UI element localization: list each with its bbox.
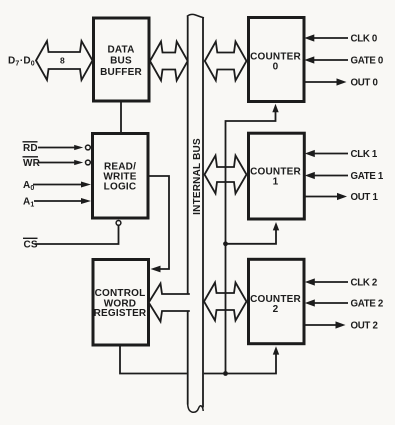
wire: GATE 2 input <box>314 302 348 304</box>
wire: RD input <box>38 147 78 149</box>
svg-text:0: 0 <box>273 61 279 72</box>
svg-text:CLK 0: CLK 0 <box>351 34 378 45</box>
arrowhead: GATE 2 <box>305 299 315 306</box>
svg-text:GATE 1: GATE 1 <box>351 171 384 182</box>
arrowhead: GATE 0 <box>304 56 314 63</box>
wire: CS input <box>35 225 119 244</box>
bus arrow: data bus buffer to internal bus <box>150 42 188 81</box>
bubble: WR active-low <box>86 160 91 165</box>
svg-text:INTERNAL BUS: INTERNAL BUS <box>192 138 203 215</box>
wire: CLK 0 input <box>313 37 348 39</box>
wire: OUT 0 output <box>304 81 338 83</box>
wire: OUT 2 output <box>304 324 337 326</box>
counter 1 block <box>249 133 305 219</box>
bubble: RD active-low <box>86 145 91 150</box>
bus arrow: internal bus to counter 2 <box>204 283 247 321</box>
arrowhead: OUT 1 <box>337 193 347 200</box>
wire: data bus buffer to read/write logic <box>120 100 122 134</box>
wire: OUT 1 output <box>304 196 338 198</box>
svg-text:GATE 2: GATE 2 <box>351 299 383 310</box>
svg-text:GATE 0: GATE 0 <box>351 56 383 67</box>
bus arrow: internal bus to control word register <box>149 284 190 322</box>
svg-text:REGISTER: REGISTER <box>94 308 147 319</box>
svg-text:BUFFER: BUFFER <box>100 67 142 78</box>
svg-text:CS: CS <box>24 240 38 251</box>
arrowhead: OUT 2 <box>336 321 346 328</box>
wire: control word register bottom to counters feed (left segment, behind bus) <box>120 345 187 374</box>
arrowhead: OUT 0 <box>337 78 347 85</box>
data bus buffer block <box>94 18 150 101</box>
svg-text:BUS: BUS <box>110 56 132 67</box>
bus arrow: D7-D0 to data bus buffer <box>36 41 93 80</box>
junction: bottom feed node <box>223 371 228 376</box>
wire: WR input <box>38 162 78 164</box>
bus arrow: internal bus to counter 0 <box>205 42 247 81</box>
overline: CS <box>23 237 38 239</box>
wire: counter 0 feed from internal-bus tap <box>226 110 276 374</box>
wire: read/write logic to control word register <box>148 176 169 269</box>
junction: counter 1 branch node <box>223 241 228 246</box>
svg-text:OUT 0: OUT 0 <box>351 78 378 89</box>
arrowhead: A0 <box>81 182 91 188</box>
svg-text:WR: WR <box>23 158 41 169</box>
arrowhead: into control word register <box>151 266 161 273</box>
svg-text:DATA: DATA <box>107 45 134 56</box>
internal bus <box>187 14 204 412</box>
overline: RD <box>23 141 38 143</box>
wire: counters feed bottom (right segment) <box>204 353 276 374</box>
arrowhead: CLK 0 <box>304 34 314 41</box>
svg-text:8: 8 <box>60 55 65 65</box>
bubble: CS active-low <box>116 221 121 226</box>
svg-text:CONTROL: CONTROL <box>95 288 146 299</box>
wire: GATE 1 input <box>314 175 348 177</box>
arrowhead: CLK 1 <box>305 150 315 157</box>
wire: CLK 1 input <box>314 153 348 155</box>
counter 2 block <box>249 259 305 343</box>
arrowhead: A1 <box>81 198 91 204</box>
svg-text:CLK 1: CLK 1 <box>351 149 378 160</box>
wire: counter 0 feed arrowhead <box>272 104 278 112</box>
arrowhead: WR <box>74 160 83 165</box>
arrowhead: GATE 1 <box>305 172 315 179</box>
overline: WR <box>23 156 39 158</box>
wire: A1 input <box>34 200 83 202</box>
svg-text:OUT 2: OUT 2 <box>351 321 378 332</box>
wire: counter 1 feed branch <box>226 229 277 244</box>
wire: counter 1 feed arrowhead <box>273 222 279 230</box>
svg-text:CLK 2: CLK 2 <box>351 278 378 289</box>
wire: GATE 0 input <box>313 59 348 61</box>
svg-text:1: 1 <box>273 177 279 188</box>
wire: CLK 2 input <box>314 281 348 283</box>
bus arrow: internal bus to counter 1 <box>205 156 247 194</box>
arrowhead: CLK 2 <box>305 278 315 285</box>
svg-text:RD: RD <box>23 143 38 154</box>
svg-text:LOGIC: LOGIC <box>104 182 137 193</box>
wire: counter 2 feed arrowhead <box>273 346 279 354</box>
svg-text:OUT 1: OUT 1 <box>351 192 379 203</box>
arrowhead: RD <box>74 145 83 150</box>
wire: A0 input <box>33 184 83 186</box>
control word register block <box>93 260 149 346</box>
counter 0 block <box>249 18 305 102</box>
svg-text:2: 2 <box>273 304 279 315</box>
read/write logic block <box>93 134 149 219</box>
